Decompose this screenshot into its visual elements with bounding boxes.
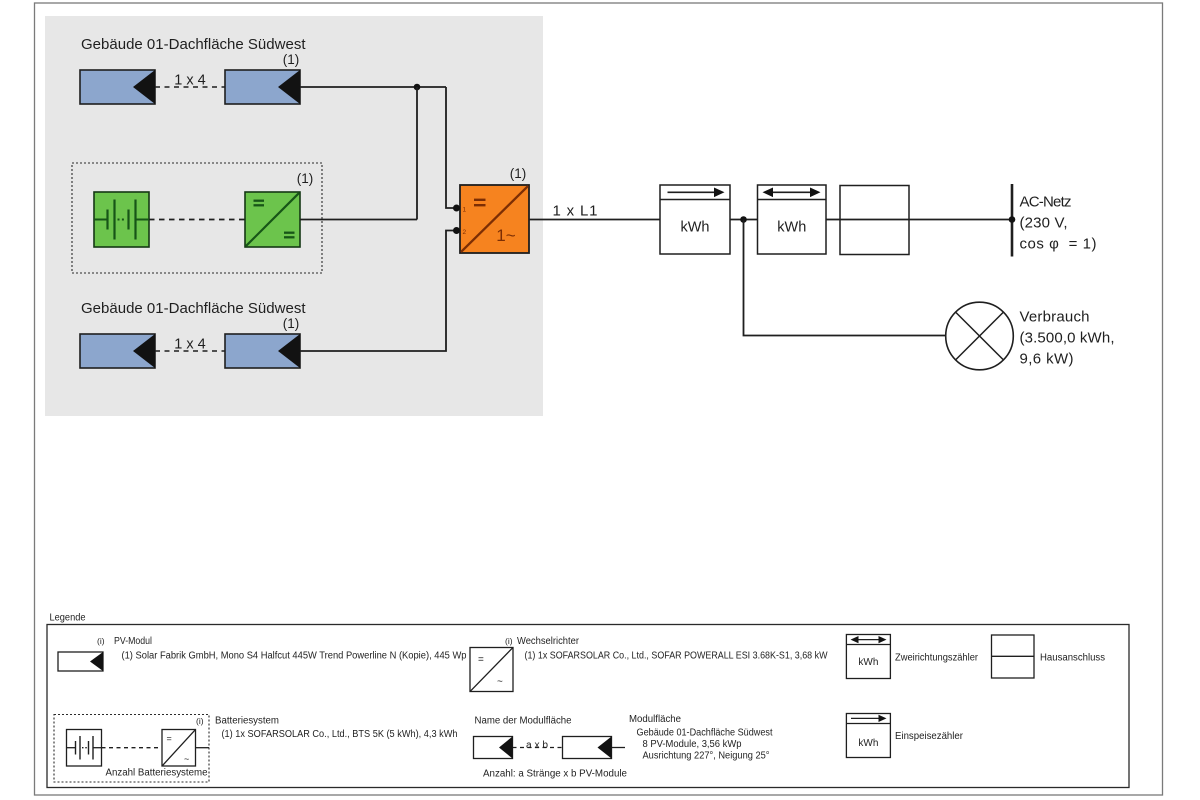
svg-text:AC-Netz: AC-Netz: [1020, 194, 1072, 211]
PV module string A module 2: [225, 70, 300, 104]
svg-text:kWh: kWh: [858, 738, 878, 749]
wire meter to house connection: [826, 219, 840, 221]
inverter U1: [460, 185, 529, 253]
svg-text:Name der Modulfläche: Name der Modulfläche: [475, 716, 572, 727]
svg-text:Verbrauch: Verbrauch: [1020, 309, 1090, 326]
svg-text:(3.500,0 kWh,: (3.500,0 kWh,: [1020, 330, 1115, 347]
legend battery symbol: [67, 730, 102, 767]
svg-text:cos φ = 1): cos φ = 1): [1020, 236, 1097, 253]
legend battery system boundary (dashed): [54, 715, 209, 783]
legend inverter symbol: [470, 648, 513, 692]
legend (i) Wechselrichter label: [505, 636, 580, 647]
battery B1: [94, 192, 149, 247]
svg-text:(1): (1): [283, 316, 300, 331]
legend box: [47, 625, 1129, 788]
svg-text:~: ~: [184, 754, 189, 764]
battery system boundary (dotted): [72, 163, 322, 273]
legend bidirectional meter symbol: [846, 635, 890, 679]
PV module string B module 1: [80, 334, 155, 368]
node junction dot consumer branch: [740, 216, 747, 223]
svg-text:1: 1: [463, 207, 467, 214]
svg-text:(1) Solar Fabrik GmbH, Mono S4: (1) Solar Fabrik GmbH, Mono S4 Halfcut 4…: [122, 651, 467, 662]
legend battery stub wire: [196, 747, 210, 749]
battery DC/DC converter: [245, 192, 300, 247]
legend PV module symbol: [58, 652, 103, 671]
consumer label: [1020, 309, 1115, 368]
svg-text:=: =: [478, 655, 484, 666]
svg-text:Zweirichtungszähler: Zweirichtungszähler: [895, 653, 979, 664]
wire consumer branch: [744, 220, 946, 336]
svg-text:Einspeisezähler: Einspeisezähler: [895, 731, 964, 742]
legend module pair dashed link: [513, 747, 563, 749]
svg-text:1~: 1~: [496, 226, 515, 245]
string A dashed link: [155, 86, 225, 88]
string B dashed link: [155, 350, 225, 352]
svg-text:Batteriesystem: Batteriesystem: [215, 716, 279, 727]
svg-text:1 x 4: 1 x 4: [174, 337, 205, 353]
svg-text:Gebäude 01-Dachfläche Südwest: Gebäude 01-Dachfläche Südwest: [81, 36, 306, 53]
wire meter to meter: [730, 219, 758, 221]
wire through house connection to grid: [840, 219, 1012, 221]
wire DC converter to node: [300, 219, 417, 221]
consumer lamp symbol: [946, 302, 1014, 370]
svg-text:Ausrichtung 227°, Neigung 25°: Ausrichtung 227°, Neigung 25°: [643, 751, 770, 762]
svg-text:PV-Modul: PV-Modul: [114, 636, 152, 647]
legend house connection symbol: [992, 635, 1035, 678]
svg-text:Legende: Legende: [50, 613, 86, 624]
svg-text:(i): (i): [97, 636, 105, 646]
PV system panel background: [45, 16, 543, 416]
svg-text:kWh: kWh: [681, 220, 710, 236]
legend module pair symbol 2: [563, 737, 612, 759]
svg-text:8 PV-Module, 3,56 kWp: 8 PV-Module, 3,56 kWp: [643, 739, 742, 750]
node junction dot string A / battery branch: [414, 84, 421, 91]
svg-text:(1) 1x SOFARSOLAR Co., Ltd., B: (1) 1x SOFARSOLAR Co., Ltd., BTS 5K (5 k…: [222, 729, 458, 740]
PV module string A module 1: [80, 70, 155, 104]
inverter input terminal dot 2: [453, 227, 460, 234]
legend battery dashed link: [102, 747, 163, 749]
svg-text:kWh: kWh: [858, 657, 878, 668]
svg-text:Anzahl Batteriesysteme: Anzahl Batteriesysteme: [106, 768, 208, 779]
svg-text:Modulfläche: Modulfläche: [629, 714, 681, 725]
svg-text:kWh: kWh: [777, 220, 806, 236]
AC grid bar: [1011, 184, 1014, 257]
svg-text:(i): (i): [196, 716, 204, 726]
svg-text:Hausanschluss: Hausanschluss: [1040, 653, 1105, 664]
wire string A to node: [300, 86, 446, 88]
svg-text:9,6 kW): 9,6 kW): [1020, 351, 1074, 368]
legend Modulfläche block: [629, 714, 773, 762]
svg-text:a x b: a x b: [526, 740, 548, 751]
legend module pair stub wire: [612, 747, 626, 749]
legend feed-in meter symbol: [846, 714, 890, 758]
svg-text:Gebäude 01-Dachfläche Südwest: Gebäude 01-Dachfläche Südwest: [637, 728, 773, 739]
house connection box: [840, 186, 909, 255]
svg-text:=: =: [167, 734, 172, 744]
legend module pair symbol 1: [474, 737, 513, 759]
inverter input terminal dot 1: [453, 205, 460, 212]
wire inverter AC output: [529, 219, 660, 221]
svg-text:Gebäude 01-Dachfläche Südwest: Gebäude 01-Dachfläche Südwest: [81, 300, 306, 317]
svg-text:(i): (i): [505, 636, 513, 646]
svg-text:1 x 4: 1 x 4: [174, 73, 205, 89]
svg-text:(1): (1): [283, 52, 300, 67]
legend (i) PV-Modul label: [97, 636, 152, 647]
svg-text:(1): (1): [297, 171, 314, 186]
svg-text:Anzahl: a Stränge x b PV-Modul: Anzahl: a Stränge x b PV-Module: [483, 769, 627, 780]
wire string B to inverter input 2: [300, 231, 454, 352]
feed-in meter kWh: [660, 185, 730, 254]
svg-text:2: 2: [463, 229, 467, 236]
svg-text:(230 V,: (230 V,: [1020, 215, 1068, 232]
svg-text:~: ~: [497, 677, 503, 688]
wire node to inverter input 1: [446, 87, 454, 208]
wire battery branch vertical: [416, 87, 418, 220]
svg-text:(1) 1x SOFARSOLAR Co., Ltd., S: (1) 1x SOFARSOLAR Co., Ltd., SOFAR POWER…: [525, 651, 828, 662]
AC grid connection dot: [1009, 216, 1016, 223]
svg-text:1 x L1: 1 x L1: [553, 203, 598, 220]
PV module string B module 2: [225, 334, 300, 368]
legend battery converter symbol: [162, 730, 196, 767]
svg-text:(1): (1): [510, 166, 527, 181]
svg-text:Wechselrichter: Wechselrichter: [517, 636, 580, 647]
bidirectional meter kWh: [758, 185, 827, 254]
AC grid label: [1020, 194, 1097, 253]
battery dashed link to DC converter: [149, 219, 245, 221]
